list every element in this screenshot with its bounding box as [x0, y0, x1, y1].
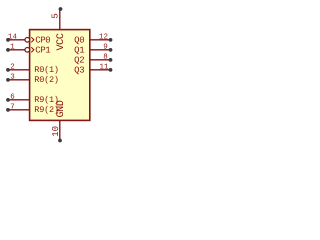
pin CP0 (14) wire — [8, 39, 25, 41]
pin CP1 end dot — [6, 48, 10, 52]
pin Q2 (8) wire — [91, 59, 111, 61]
pin GND (10) wire — [59, 121, 61, 140]
pin CP1 clock wedge — [31, 47, 34, 52]
pin CP1 inversion bubble — [25, 47, 30, 52]
IC body U1 (74LS90 counter) — [30, 30, 90, 121]
svg-text:14: 14 — [8, 34, 18, 42]
pin Q3 end dot — [109, 68, 113, 72]
svg-text:R9(2): R9(2) — [34, 105, 59, 115]
pin R0(1) (2) wire — [8, 69, 30, 71]
svg-text:VCC: VCC — [56, 33, 67, 50]
svg-text:5: 5 — [51, 13, 61, 18]
pin CP0 inversion bubble — [25, 37, 30, 42]
svg-text:11: 11 — [99, 64, 109, 72]
svg-text:Q2: Q2 — [74, 55, 84, 65]
pin Q2 end dot — [109, 58, 113, 62]
pin VCC (5) wire — [59, 10, 61, 30]
svg-text:CP1: CP1 — [35, 46, 50, 56]
pin CP0 clock wedge — [31, 37, 34, 42]
svg-text:1: 1 — [10, 44, 15, 52]
pin R9(2) (7) wire — [8, 109, 30, 111]
svg-text:CP0: CP0 — [35, 36, 50, 46]
pin R0(2) end dot — [6, 78, 10, 82]
svg-text:3: 3 — [10, 73, 15, 82]
pin R9(1) end dot — [6, 98, 10, 102]
svg-text:12: 12 — [99, 33, 108, 42]
pin Q1 end dot — [109, 48, 113, 52]
svg-text:R0(2): R0(2) — [34, 75, 59, 85]
pin R9(1) (6) wire — [8, 99, 30, 101]
svg-text:2: 2 — [10, 63, 15, 72]
pin Q0 (12) wire — [91, 39, 111, 41]
svg-text:9: 9 — [103, 43, 108, 52]
pin GND end dot — [58, 139, 62, 143]
svg-text:Q1: Q1 — [74, 45, 84, 55]
pin R9(2) end dot — [6, 108, 10, 112]
svg-text:7: 7 — [10, 104, 15, 112]
pin Q3 (11) wire — [91, 69, 111, 71]
svg-text:10: 10 — [51, 126, 61, 137]
svg-text:R9(1): R9(1) — [34, 95, 59, 105]
pin CP1 (1) wire — [8, 49, 25, 51]
svg-text:Q0: Q0 — [74, 35, 84, 45]
svg-text:R0(1): R0(1) — [34, 65, 59, 75]
pin Q0 end dot — [109, 38, 113, 42]
pin R0(1) end dot — [6, 68, 10, 72]
svg-text:6: 6 — [10, 93, 15, 102]
pin VCC end dot — [59, 7, 63, 11]
pin CP0 end dot — [6, 38, 10, 42]
pin Q1 (9) wire — [91, 49, 111, 51]
svg-text:GND: GND — [56, 100, 67, 117]
svg-text:Q3: Q3 — [74, 65, 84, 75]
svg-text:8: 8 — [103, 53, 108, 62]
pin R0(2) (3) wire — [8, 79, 30, 81]
